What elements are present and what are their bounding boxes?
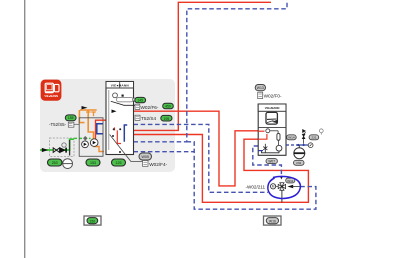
boiler W02 [106, 82, 134, 155]
capsule port green oval 145 [133, 97, 146, 102]
svg-text:W13: W13 [257, 86, 264, 90]
flue terminal T1 [86, 112, 91, 116]
svg-text:M: M [272, 185, 275, 189]
valve motor M [271, 184, 279, 189]
red internal loop in header [96, 120, 107, 145]
safety valve [302, 130, 305, 144]
wire: control dashed blue boiler to valve motor [134, 124, 269, 192]
sensor W02/F4 icon [143, 161, 168, 167]
boiler port dots [112, 128, 121, 153]
green oval 155 [65, 115, 76, 121]
left margin rule [24, 0, 26, 258]
svg-text:195: 195 [164, 117, 170, 121]
gas flow arrow [42, 148, 48, 152]
svg-text:W07: W07 [268, 160, 275, 164]
pump P2 [90, 139, 98, 147]
boiler internal blue mark [124, 125, 127, 142]
grey oval 232 [294, 160, 305, 165]
svg-text:W14: W14 [288, 136, 295, 140]
valve flow arrow [287, 185, 293, 188]
grey oval 231 [309, 135, 319, 140]
svg-text:W16: W16 [269, 219, 276, 223]
svg-text:450: 450 [165, 105, 171, 109]
svg-text:T52/S4: T52/S4 [141, 116, 157, 121]
gas train box [50, 138, 75, 156]
pipe: boiler return stub dashed blue [134, 151, 195, 153]
unit internal red stubs [258, 130, 264, 132]
unit pump [276, 140, 282, 151]
gas train right fitting [69, 140, 71, 156]
flue pipe orange into header [88, 110, 93, 139]
svg-text:VIE●MANN: VIE●MANN [111, 83, 130, 87]
pipe: unit return to mixing valve dashed blue [253, 146, 282, 176]
header/distributor box [79, 118, 103, 157]
bottom left tag box [84, 216, 101, 225]
grey system panel [40, 79, 175, 172]
svg-text:253: 253 [52, 161, 58, 165]
green oval 125 [112, 159, 126, 166]
annotation hand-drawn ellipse [268, 176, 301, 198]
flue pipe orange drop [79, 110, 84, 123]
svg-text:W02/F4-: W02/F4- [149, 162, 167, 167]
expansion vessel [294, 145, 305, 159]
svg-text:150: 150 [89, 219, 95, 223]
blue internal bracket in header [97, 124, 103, 134]
expansion line blue [286, 144, 308, 146]
sensor W02/F6 icon [135, 104, 159, 110]
arrow into valve top [280, 176, 283, 179]
boiler sensor line [111, 101, 135, 105]
grey oval W13 [255, 85, 265, 91]
manometer below gas train [63, 159, 73, 169]
pipe: remote supply red (top loop) [134, 2, 272, 130]
gas shutoff diamond [83, 136, 88, 141]
unit internal blue stub [258, 150, 263, 152]
green oval 195 [161, 115, 172, 121]
pipe: boiler supply red to indoor unit [112, 111, 258, 186]
bottom right tag box [264, 216, 282, 225]
svg-text:125: 125 [116, 161, 122, 165]
gas regulator circle [62, 143, 66, 147]
svg-text:W11: W11 [287, 179, 293, 183]
svg-text:W02/F0-: W02/F0- [264, 94, 282, 99]
gas pipe green dashed into header box [74, 137, 91, 139]
grey oval W11 [286, 178, 295, 183]
flue terminal T2 [91, 112, 96, 116]
unit diverter valve [266, 129, 278, 134]
gas valve bowtie outline [53, 148, 59, 153]
flue direction arrow [82, 106, 88, 109]
label T52/S5 [49, 122, 79, 127]
gas valve bowtie solid [60, 147, 66, 153]
grey oval W07 [266, 159, 277, 164]
green oval 450 [163, 103, 174, 109]
unit internal valve [262, 144, 280, 153]
grey oval W05 [139, 153, 152, 160]
unit expansion capsule [277, 133, 280, 140]
pump P1 [82, 141, 89, 148]
indoor unit [258, 104, 286, 155]
app icon (red Vitoguide) [41, 80, 62, 101]
svg-text:VIE●MANN: VIE●MANN [44, 94, 58, 98]
leader to W02/F4 [110, 135, 143, 162]
flue pipe orange [80, 109, 97, 111]
gas pipe green [40, 139, 74, 150]
pipe: remote return dashed blue top loop [134, 1, 288, 142]
svg-text:155: 155 [68, 116, 74, 120]
grey oval W14 [287, 135, 297, 140]
boiler internal red drop [117, 130, 121, 143]
svg-text:232: 232 [296, 161, 301, 165]
svg-text:W02/F6-: W02/F6- [141, 105, 159, 110]
sensor T52/S4 icon [135, 115, 157, 121]
svg-text:-T52/S5-: -T52/S5- [49, 122, 67, 127]
pipe: return bus dashed blue valve to boiler [187, 142, 316, 209]
pressure gauge P [308, 143, 313, 148]
svg-text:W05: W05 [142, 155, 149, 159]
svg-text:VIE●MANN: VIE●MANN [265, 106, 280, 110]
boiler flow internal arrow [112, 110, 117, 114]
green oval 253 [48, 159, 63, 166]
svg-text:145: 145 [137, 99, 143, 103]
sensor W02/F0 icon [258, 92, 282, 98]
green oval 153 [86, 159, 100, 166]
mixing valve 3-way [278, 183, 285, 203]
svg-text:231: 231 [311, 136, 316, 140]
flue bottom orange elbow [94, 147, 105, 152]
svg-text:153: 153 [90, 161, 96, 165]
svg-text:-W02/211: -W02/211 [246, 184, 266, 189]
pipe: red loop via bottom to mixing group [134, 135, 309, 203]
air vent [319, 129, 323, 135]
